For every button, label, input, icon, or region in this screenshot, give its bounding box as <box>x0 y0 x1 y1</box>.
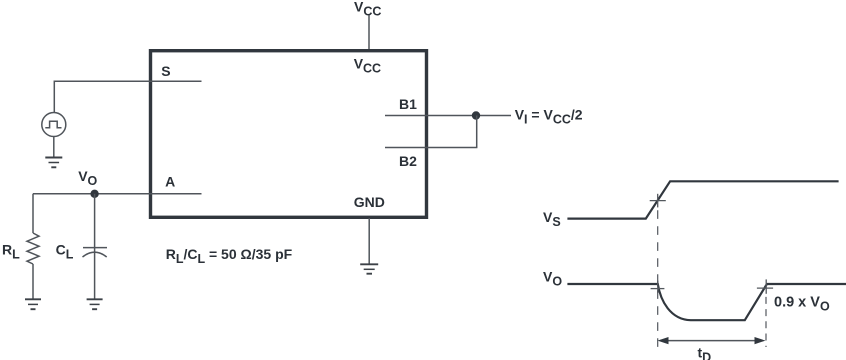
DUT box <box>151 51 427 218</box>
wire VCC supply to box <box>368 15 370 50</box>
wire RL to ground <box>32 264 34 299</box>
wire node VO to pin A <box>33 193 202 195</box>
svg-text:A: A <box>165 174 175 190</box>
wire B2 <box>385 147 477 149</box>
svg-text:VI = VCC/2: VI = VCC/2 <box>515 107 583 127</box>
VS waveform <box>567 181 838 218</box>
wire node to resistor RL <box>32 194 34 233</box>
ground (RL) <box>25 299 41 309</box>
capacitor CL wire <box>94 194 96 299</box>
capacitor CL bottom plate (arc) <box>83 252 107 257</box>
svg-text:S: S <box>161 63 170 79</box>
node dot B1/B2 <box>472 111 480 119</box>
tD arrowhead right <box>755 337 766 344</box>
capacitor CL top plate <box>83 247 107 249</box>
wire node down to B2 <box>476 116 478 148</box>
VS crosshair tick <box>650 194 666 208</box>
svg-text:tD: tD <box>698 345 712 360</box>
svg-text:RL/CL = 50 Ω/35 pF: RL/CL = 50 Ω/35 pF <box>166 246 293 266</box>
wire GND pin <box>368 218 370 264</box>
svg-text:RL: RL <box>2 242 20 262</box>
svg-text:VO: VO <box>78 168 97 188</box>
wire generator to ground <box>53 137 55 158</box>
svg-text:0.9 x VO: 0.9 x VO <box>774 294 830 313</box>
pulse generator circle <box>42 113 66 137</box>
node dot VO <box>90 190 98 198</box>
wire B1 to node <box>385 115 511 117</box>
svg-text:VCC: VCC <box>354 0 381 19</box>
svg-text:GND: GND <box>354 194 385 210</box>
svg-text:CL: CL <box>56 242 74 262</box>
pulse symbol <box>45 121 61 127</box>
dashed line right (tD end) <box>765 297 767 347</box>
svg-text:B2: B2 <box>399 153 417 169</box>
tD arrowhead left <box>658 337 669 344</box>
tD arrow line <box>660 340 763 342</box>
wire S to pulse generator <box>54 81 201 112</box>
VO left crosshair tick <box>651 281 665 293</box>
ground (GND pin) <box>360 264 378 273</box>
svg-text:VS: VS <box>543 209 561 229</box>
svg-text:VO: VO <box>543 269 562 289</box>
resistor RL <box>27 233 39 264</box>
svg-text:B1: B1 <box>399 96 417 112</box>
ground (CL) <box>87 299 103 309</box>
VO right crosshair tick <box>757 279 773 293</box>
svg-text:VCC: VCC <box>354 56 381 76</box>
ground (generator) <box>45 158 62 168</box>
VO waveform <box>567 284 846 320</box>
dashed line left (tD start) <box>657 210 659 347</box>
